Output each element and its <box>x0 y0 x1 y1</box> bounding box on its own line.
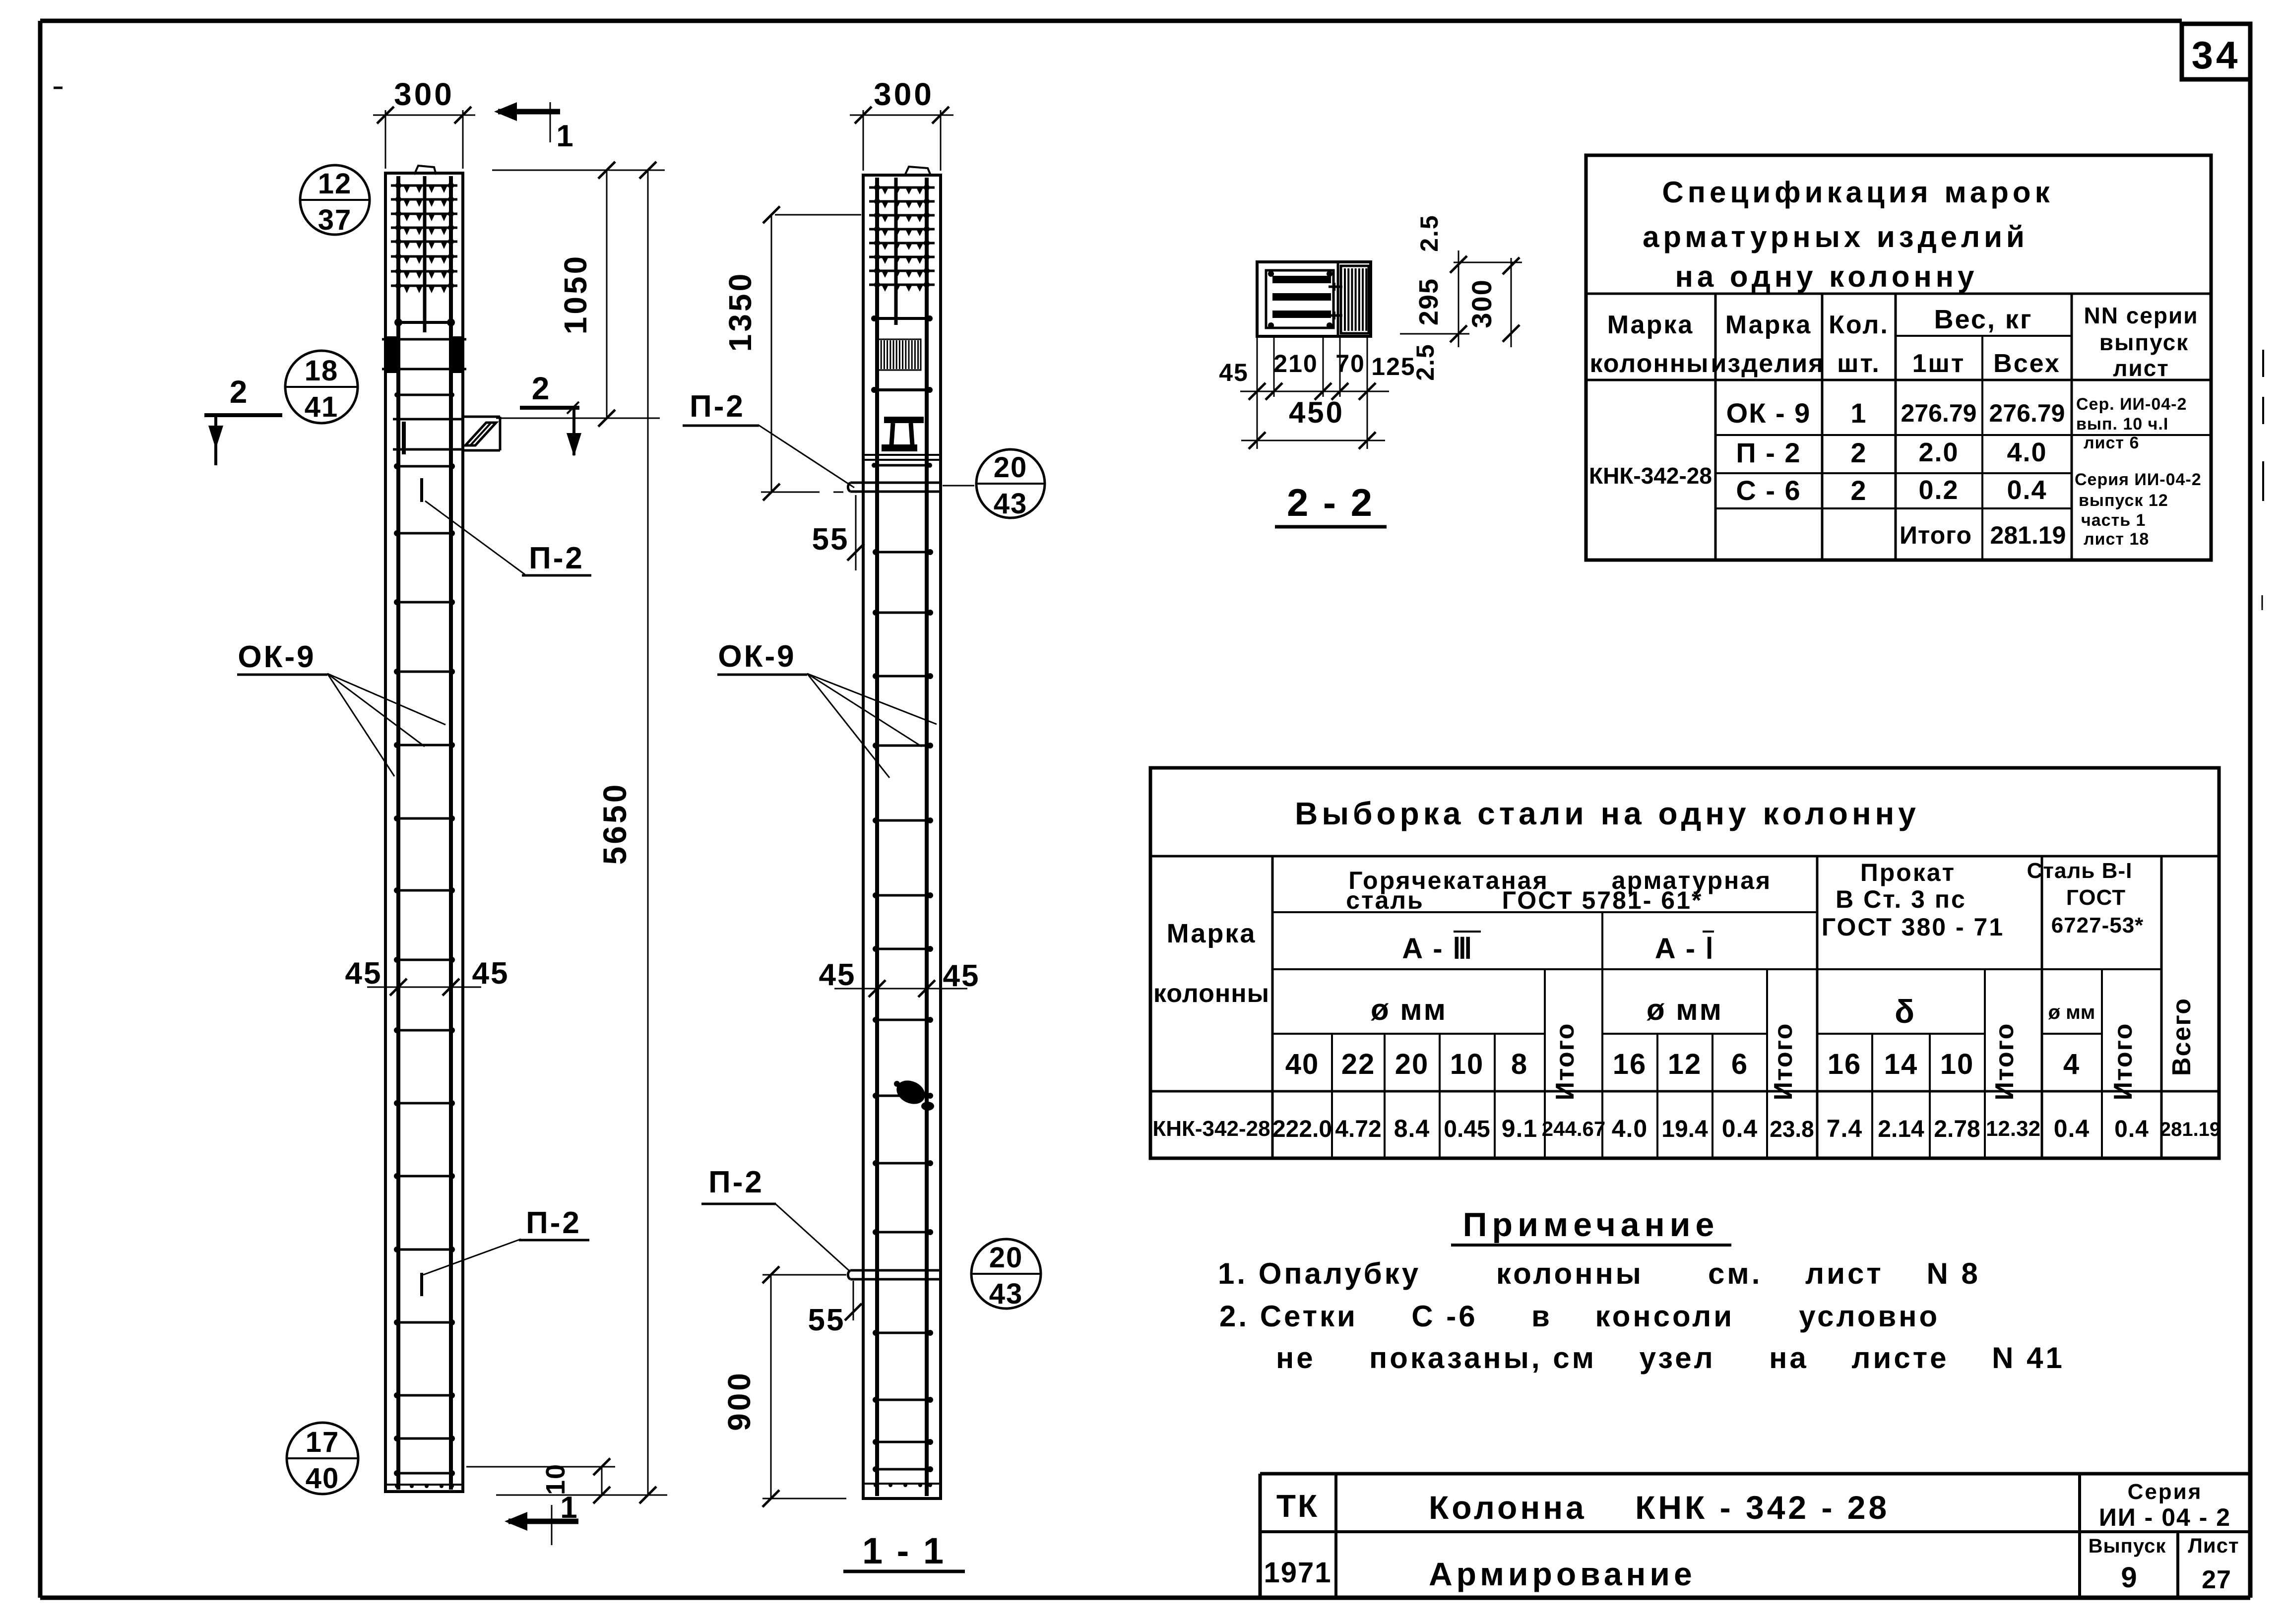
svg-text:125: 125 <box>1371 353 1415 380</box>
svg-text:А - Ⅲ: А - Ⅲ <box>1402 933 1473 965</box>
svg-text:ОК - 9: ОК - 9 <box>1726 397 1811 429</box>
steel table diameter row <box>1285 1048 2080 1080</box>
reference circle 12/37 <box>300 165 370 236</box>
dimension 10 at column 1 bottom <box>466 1458 615 1503</box>
label P-2 lower column 1 <box>423 1206 589 1275</box>
lifting loop P-2 lower column 2 <box>848 1270 941 1279</box>
lifting loop P-2 upper column 2 <box>848 483 941 492</box>
svg-text:0.4: 0.4 <box>1722 1115 1758 1142</box>
svg-text:43: 43 <box>994 488 1028 520</box>
section mark 1 top <box>494 102 575 153</box>
svg-text:55: 55 <box>812 522 849 557</box>
svg-text:КНК-342-28: КНК-342-28 <box>1589 463 1712 489</box>
svg-text:вып. 10 ч.I: вып. 10 ч.I <box>2076 415 2168 434</box>
svg-text:δ: δ <box>1895 993 1915 1030</box>
svg-text:1350: 1350 <box>722 271 758 352</box>
svg-text:8.4: 8.4 <box>1394 1115 1430 1142</box>
note 2 line 1 <box>1219 1300 1940 1333</box>
svg-text:Всего: Всего <box>2167 998 2196 1076</box>
svg-text:18: 18 <box>305 355 339 387</box>
svg-text:NN серии: NN серии <box>2084 303 2198 328</box>
label OK-9 column 1 with leaders <box>237 640 445 776</box>
svg-text:0.45: 0.45 <box>1444 1116 1490 1142</box>
svg-text:4: 4 <box>2063 1048 2080 1080</box>
svg-text:лист 18: лист 18 <box>2084 530 2149 549</box>
section 2-2 dimension 450 <box>1241 396 1385 449</box>
notes heading <box>1451 1206 1731 1245</box>
svg-text:55: 55 <box>808 1303 845 1337</box>
svg-text:2.78: 2.78 <box>1934 1116 1980 1142</box>
section 2-2 stirrup and bars <box>1266 270 1333 328</box>
svg-text:Серия: Серия <box>2128 1480 2203 1504</box>
svg-text:ТК: ТК <box>1276 1488 1319 1524</box>
svg-text:1971: 1971 <box>1264 1557 1332 1589</box>
svg-text:Марка: Марка <box>1167 919 1257 948</box>
svg-text:244.67: 244.67 <box>1542 1117 1605 1140</box>
column 1 console-level inner lines <box>393 419 463 454</box>
note 1 <box>1218 1257 1980 1290</box>
svg-text:9: 9 <box>2121 1562 2137 1594</box>
svg-text:295: 295 <box>1414 278 1444 325</box>
svg-text:14: 14 <box>1884 1048 1918 1080</box>
svg-text:40: 40 <box>1285 1048 1320 1080</box>
dimension 300 column 1 <box>373 76 475 169</box>
svg-text:лист 6: лист 6 <box>2084 434 2139 452</box>
svg-text:Итого: Итого <box>2109 1023 2138 1101</box>
reference circle 20/43 lower <box>971 1239 1041 1310</box>
column 1 outline <box>385 166 463 1492</box>
svg-text:12.32: 12.32 <box>1986 1117 2040 1141</box>
dimension 45-45 column 2 <box>819 958 980 997</box>
svg-text:450: 450 <box>1289 396 1344 429</box>
svg-text:22: 22 <box>1341 1048 1376 1080</box>
svg-text:КНК-342-28: КНК-342-28 <box>1152 1117 1270 1141</box>
svg-text:20: 20 <box>994 451 1028 484</box>
svg-text:45: 45 <box>345 956 382 991</box>
column 2 main bars <box>877 178 927 1496</box>
svg-text:на одну колонну: на одну колонну <box>1675 260 1978 293</box>
svg-text:12: 12 <box>318 168 352 200</box>
specification table data <box>1589 397 2066 549</box>
steel table title <box>1295 796 1920 831</box>
svg-text:сталь: сталь <box>1346 886 1424 914</box>
svg-text:Примечание: Примечание <box>1463 1206 1719 1244</box>
svg-text:20: 20 <box>989 1242 1023 1274</box>
svg-text:23.8: 23.8 <box>1770 1116 1814 1142</box>
svg-text:4.0: 4.0 <box>2007 437 2047 467</box>
column 1 console bracket <box>463 417 500 450</box>
svg-text:210: 210 <box>1273 350 1318 377</box>
svg-text:0.2: 0.2 <box>1918 475 1959 505</box>
svg-text:не показаны, см узел: не показаны, см узел на листе N 41 <box>1276 1341 2065 1374</box>
svg-text:Прокат: Прокат <box>1860 859 1956 886</box>
svg-text:ГОСТ: ГОСТ <box>2066 885 2126 910</box>
svg-text:12: 12 <box>1668 1048 1702 1080</box>
dimension 1050 <box>492 162 665 427</box>
section 2-2 outline <box>1257 262 1371 336</box>
column 2 embedded I-shaped support <box>882 417 924 451</box>
svg-text:ø мм: ø мм <box>1647 993 1723 1026</box>
steel selection table frame <box>1150 768 2219 1158</box>
svg-text:1 - 1: 1 - 1 <box>862 1530 946 1571</box>
svg-text:27: 27 <box>2202 1565 2231 1594</box>
svg-text:ОК-9: ОК-9 <box>238 640 316 674</box>
scan artifact dashes right margin <box>2262 350 2263 610</box>
svg-text:Серия ИИ-04-2: Серия ИИ-04-2 <box>2075 470 2202 489</box>
svg-text:Всех: Всех <box>1993 349 2061 378</box>
svg-text:7.4: 7.4 <box>1827 1115 1863 1142</box>
svg-text:900: 900 <box>721 1371 757 1431</box>
dimension 1350 <box>722 206 861 500</box>
stray scan dash <box>54 87 63 89</box>
section mark 1 bottom <box>505 1491 579 1545</box>
column 2 hatched embedded block <box>876 339 921 370</box>
label P-2 upper column 1 <box>425 501 591 575</box>
section 2-2 right dimensions 2.5 295 300 2.5 <box>1400 214 1522 381</box>
dimension 900 <box>721 1266 846 1507</box>
svg-text:арматурных изделий: арматурных изделий <box>1643 220 2029 253</box>
svg-text:6727-53*: 6727-53* <box>2051 913 2144 937</box>
svg-text:лист: лист <box>2113 355 2169 381</box>
svg-text:П-2: П-2 <box>708 1165 764 1199</box>
section mark 2 left <box>204 374 282 465</box>
ink blot artifact <box>893 1076 934 1111</box>
svg-text:колонны: колонны <box>1589 349 1709 378</box>
column 2 outline <box>863 167 941 1499</box>
sheet number box 34 <box>2182 24 2250 79</box>
svg-text:выпуск 12: выпуск 12 <box>2079 491 2168 510</box>
svg-text:45: 45 <box>819 958 856 992</box>
svg-text:2: 2 <box>230 374 249 410</box>
svg-text:ГОСТ 380 - 71: ГОСТ 380 - 71 <box>1822 913 2004 941</box>
reference circle 20/43 upper <box>976 449 1045 520</box>
specification table series references <box>2075 395 2202 549</box>
svg-text:300: 300 <box>394 76 454 112</box>
svg-text:45: 45 <box>472 956 509 991</box>
svg-text:колонны: колонны <box>1153 979 1269 1008</box>
steel table data row <box>1152 1115 2220 1142</box>
svg-text:40: 40 <box>306 1462 340 1495</box>
svg-text:2.5: 2.5 <box>1415 214 1443 252</box>
svg-text:П-2: П-2 <box>690 389 745 424</box>
svg-text:шт.: шт. <box>1837 349 1881 378</box>
column 2 stirrup <box>872 463 932 468</box>
column 2 stirrups <box>863 549 941 1487</box>
svg-text:Итого: Итого <box>1551 1023 1580 1101</box>
svg-text:П-2: П-2 <box>529 541 584 575</box>
svg-text:П - 2: П - 2 <box>1736 437 1801 468</box>
column 2 stirrup below mesh <box>871 315 933 321</box>
svg-text:20: 20 <box>1395 1048 1429 1080</box>
dimension 5650 <box>496 162 667 1503</box>
svg-text:1шт: 1шт <box>1912 349 1966 378</box>
svg-text:222.0: 222.0 <box>1272 1116 1332 1142</box>
svg-text:ГОСТ 5781- 61*: ГОСТ 5781- 61* <box>1502 886 1703 914</box>
svg-text:2: 2 <box>1850 475 1867 506</box>
section 2-2 bottom dimensions 45 210 70 125 <box>1219 336 1416 449</box>
svg-text:0.4: 0.4 <box>2114 1116 2149 1142</box>
dimension 300 column 2 <box>850 76 953 171</box>
svg-text:2.5: 2.5 <box>1411 343 1439 381</box>
svg-text:Сталь В-I: Сталь В-I <box>2027 859 2133 883</box>
svg-text:276.79: 276.79 <box>1901 399 1977 427</box>
svg-text:8: 8 <box>1511 1048 1528 1080</box>
column 1 lifting-loop bars P-2 <box>420 478 423 1296</box>
section 2-2 tie connectors <box>1329 283 1342 319</box>
svg-text:П-2: П-2 <box>526 1206 581 1240</box>
svg-text:17: 17 <box>306 1426 340 1458</box>
svg-text:Армирование: Армирование <box>1429 1556 1696 1592</box>
svg-text:Выпуск: Выпуск <box>2089 1535 2166 1557</box>
label P-2 upper column 2 <box>683 389 854 488</box>
svg-text:Колонна КНК - 342 - 28: Колонна КНК - 342 - 28 <box>1429 1489 1890 1526</box>
svg-text:16: 16 <box>1828 1048 1862 1080</box>
reference circle 17/40 <box>287 1423 358 1495</box>
label P-2 lower column 2 <box>701 1165 849 1271</box>
column 1 stirrups <box>385 463 463 1488</box>
specification table headers <box>1589 303 2198 381</box>
reference circle 18/41 <box>285 351 358 423</box>
svg-text:276.79: 276.79 <box>1989 399 2065 427</box>
svg-text:2: 2 <box>1850 437 1867 468</box>
svg-text:300: 300 <box>874 76 934 112</box>
caption 2-2 <box>1275 481 1387 527</box>
svg-text:34: 34 <box>2192 33 2241 77</box>
svg-text:10: 10 <box>1940 1048 1974 1080</box>
svg-text:2.0: 2.0 <box>1918 437 1959 467</box>
svg-text:10: 10 <box>1450 1048 1484 1080</box>
column 1 embedded side plates <box>382 336 466 373</box>
svg-text:281.19: 281.19 <box>1990 521 2066 549</box>
title block texts <box>1264 1480 2239 1594</box>
column 1 top mesh with hooks <box>391 183 457 326</box>
section 2-2 hatched channel <box>1341 266 1369 333</box>
svg-text:4.0: 4.0 <box>1612 1115 1648 1142</box>
column 2 plate lines <box>863 455 941 460</box>
specification table frame <box>1586 155 2211 560</box>
svg-text:45: 45 <box>943 959 980 993</box>
svg-text:1050: 1050 <box>558 254 593 334</box>
svg-text:9.1: 9.1 <box>1502 1115 1538 1142</box>
svg-text:281.19: 281.19 <box>2160 1119 2220 1140</box>
svg-text:Вес, кг: Вес, кг <box>1934 305 2033 334</box>
note 2 line 2 <box>1276 1341 2065 1374</box>
svg-text:5650: 5650 <box>596 782 633 865</box>
svg-text:Итого: Итого <box>1990 1023 2019 1101</box>
svg-text:2.14: 2.14 <box>1878 1116 1924 1142</box>
svg-text:Кол.: Кол. <box>1829 311 1889 339</box>
svg-text:41: 41 <box>305 391 339 423</box>
svg-text:2: 2 <box>532 371 551 406</box>
svg-text:0.4: 0.4 <box>2054 1115 2090 1142</box>
svg-text:43: 43 <box>989 1278 1023 1310</box>
svg-text:70: 70 <box>1335 350 1365 377</box>
svg-text:1: 1 <box>560 1491 578 1525</box>
loop level line to circle 20/43 upper <box>943 485 974 487</box>
svg-text:1. Опалубку колонны: 1. Опалубку колонны см. лист N 8 <box>1218 1257 1980 1290</box>
svg-text:37: 37 <box>318 204 352 236</box>
svg-text:Марка: Марка <box>1725 311 1812 339</box>
svg-text:ø мм: ø мм <box>2048 1001 2095 1023</box>
dimension 45-45 column 1 <box>345 956 509 996</box>
svg-text:Спецификация марок: Спецификация марок <box>1662 176 2053 209</box>
svg-text:300: 300 <box>1466 279 1497 328</box>
column 1 main bars <box>398 176 451 1490</box>
svg-text:часть 1: часть 1 <box>2081 511 2146 530</box>
svg-text:А - Ⅰ: А - Ⅰ <box>1655 933 1715 965</box>
svg-text:6: 6 <box>1731 1048 1748 1080</box>
svg-text:16: 16 <box>1613 1048 1647 1080</box>
svg-text:Лист: Лист <box>2188 1534 2239 1557</box>
svg-text:Итого: Итого <box>1769 1023 1798 1101</box>
svg-text:ОК-9: ОК-9 <box>718 639 796 674</box>
svg-text:В Ст. 3 пс: В Ст. 3 пс <box>1836 885 1966 913</box>
title block frame <box>1260 1474 2250 1598</box>
svg-text:4.72: 4.72 <box>1335 1116 1381 1142</box>
svg-text:1: 1 <box>1850 397 1867 429</box>
label OK-9 column 2 with leaders <box>717 639 937 778</box>
svg-text:Марка: Марка <box>1607 311 1694 339</box>
specification table title <box>1643 176 2054 293</box>
svg-text:ИИ - 04 - 2: ИИ - 04 - 2 <box>2099 1503 2231 1531</box>
svg-text:0.4: 0.4 <box>2007 475 2047 505</box>
svg-text:1: 1 <box>556 119 574 153</box>
svg-text:45: 45 <box>1219 359 1249 386</box>
svg-text:Выборка стали на одну колонн: Выборка стали на одну колонну <box>1295 796 1920 831</box>
dimension 55 lower <box>808 1281 862 1337</box>
column 2 stirrup <box>871 387 933 393</box>
svg-text:изделия: изделия <box>1711 349 1824 378</box>
svg-text:С - 6: С - 6 <box>1736 475 1801 506</box>
svg-text:Сер. ИИ-04-2: Сер. ИИ-04-2 <box>2076 395 2187 414</box>
svg-text:Итого: Итого <box>1900 521 1972 549</box>
column 1 stirrup above console <box>394 392 454 397</box>
svg-text:выпуск: выпуск <box>2099 329 2189 355</box>
svg-text:19.4: 19.4 <box>1661 1116 1708 1142</box>
svg-text:2 - 2: 2 - 2 <box>1287 481 1374 524</box>
svg-text:2. Сетки С -6 в кон: 2. Сетки С -6 в консоли условно <box>1219 1300 1940 1333</box>
steel table headers <box>1153 859 2196 1100</box>
section mark 2 right <box>520 371 581 456</box>
column 2 top mesh with hooks <box>869 185 935 292</box>
caption 1-1 <box>843 1530 965 1571</box>
svg-text:ø мм: ø мм <box>1371 993 1447 1026</box>
dimension 55 upper <box>812 495 864 570</box>
